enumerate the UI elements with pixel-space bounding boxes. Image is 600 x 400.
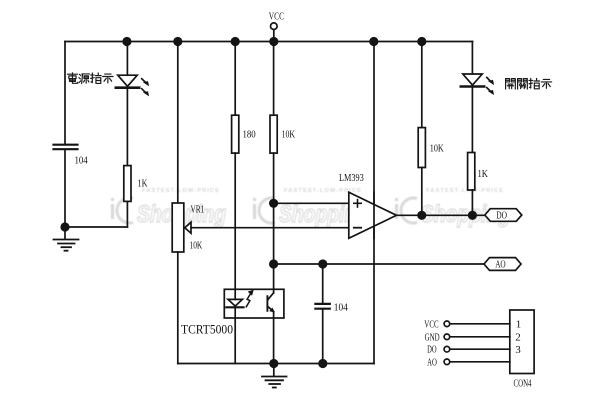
resistor R5 1K — [468, 153, 475, 191]
wire op-amp power through symbol — [373, 192, 375, 238]
label switch indicator chinese — [506, 78, 552, 89]
svg-text:104: 104 — [75, 155, 89, 167]
wire op-amp power drop — [373, 42, 375, 364]
TCRT5000 U2 box — [224, 289, 284, 318]
svg-text:104: 104 — [334, 302, 348, 314]
svg-text:LM393: LM393 — [339, 172, 364, 184]
svg-text:VCC: VCC — [269, 11, 284, 23]
wire plus input — [274, 202, 349, 204]
wire VR1 branch — [177, 42, 179, 204]
wire left branch down to capacitor — [64, 42, 66, 144]
LED D1 power indicator — [126, 42, 128, 76]
resistor R3 10K — [273, 42, 275, 116]
TCRT5000 internal LED — [228, 299, 242, 306]
ground bottom — [273, 364, 275, 377]
port AO flag — [484, 258, 521, 271]
svg-text:1K: 1K — [138, 178, 148, 190]
wire right branch — [471, 42, 473, 75]
svg-text:VCC: VCC — [424, 319, 438, 330]
svg-text:10K: 10K — [282, 128, 296, 140]
wire bottom of left branch — [65, 226, 127, 228]
wire bottom rail — [178, 363, 374, 365]
port DO flag — [485, 209, 522, 222]
svg-text:AO: AO — [427, 357, 437, 368]
LED D2 switch indicator — [463, 74, 482, 85]
potentiometer VR1 10K — [172, 203, 184, 252]
svg-text:10K: 10K — [430, 143, 444, 155]
svg-text:2: 2 — [515, 331, 521, 343]
TCRT5000 emission arrow — [246, 294, 250, 307]
svg-text:1: 1 — [516, 318, 522, 330]
svg-text:AO: AO — [495, 260, 506, 271]
svg-text:3: 3 — [515, 344, 521, 356]
svg-text:DO: DO — [496, 211, 507, 222]
wire DO net — [397, 214, 485, 216]
ground left — [64, 227, 66, 239]
capacitor C2 104 — [322, 264, 324, 303]
svg-text:GND: GND — [425, 332, 440, 343]
svg-text:180: 180 — [243, 128, 257, 140]
svg-text:1K: 1K — [478, 168, 489, 180]
resistor R2 180 — [234, 42, 236, 116]
op-amp U1 LM393 — [349, 192, 397, 238]
resistor R4 10K — [421, 42, 423, 128]
wire top rail — [65, 41, 473, 43]
svg-text:VR1: VR1 — [191, 204, 205, 216]
TCRT5000 phototransistor Q1 — [266, 296, 268, 311]
node VCC — [273, 30, 275, 42]
connector CON4 — [510, 310, 534, 374]
resistor R1 1K — [124, 166, 131, 202]
wire AO net — [274, 263, 485, 265]
svg-text:10K: 10K — [190, 240, 203, 252]
capacitor C1 104 — [54, 144, 78, 146]
svg-text:TCRT5000: TCRT5000 — [181, 323, 233, 337]
svg-text:CON4: CON4 — [514, 378, 532, 390]
label power indicator chinese — [67, 73, 113, 84]
svg-text:DO: DO — [427, 345, 437, 356]
